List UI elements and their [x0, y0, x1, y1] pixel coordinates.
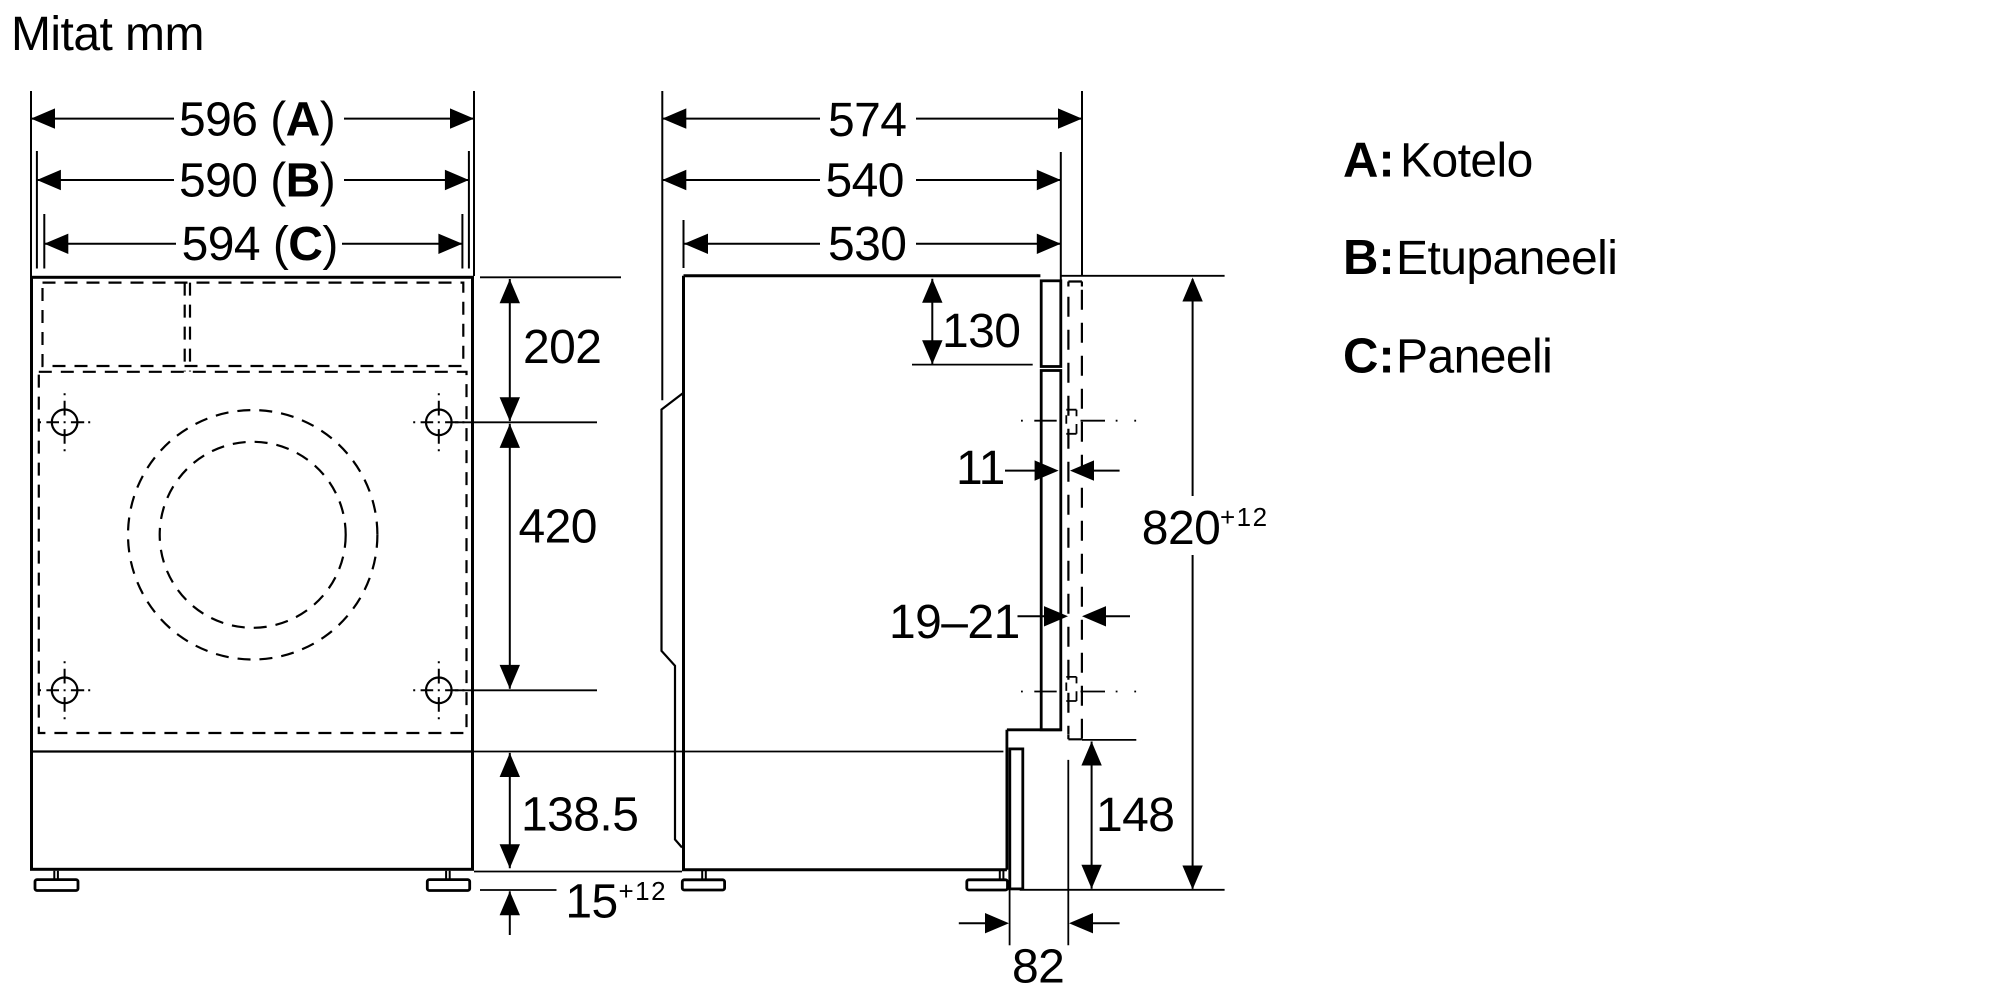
svg-text:574: 574 — [828, 94, 906, 147]
svg-text:594 (C): 594 (C) — [182, 218, 338, 271]
svg-text:B:: B: — [1343, 231, 1395, 285]
svg-text:+12: +12 — [1220, 502, 1269, 532]
svg-text:530: 530 — [828, 218, 906, 271]
svg-text:+12: +12 — [619, 876, 668, 906]
svg-text:138.5: 138.5 — [521, 789, 638, 842]
svg-text:A:: A: — [1343, 134, 1395, 188]
svg-text:820: 820 — [1142, 502, 1220, 555]
svg-text:148: 148 — [1096, 789, 1174, 842]
svg-text:Paneeli: Paneeli — [1396, 330, 1552, 383]
svg-text:15: 15 — [565, 876, 617, 929]
svg-text:596 (A): 596 (A) — [179, 94, 335, 147]
svg-text:Kotelo: Kotelo — [1400, 135, 1533, 188]
svg-text:11: 11 — [956, 442, 1005, 495]
svg-text:Mitat mm: Mitat mm — [11, 8, 204, 61]
svg-text:202: 202 — [523, 321, 601, 374]
svg-text:420: 420 — [519, 501, 597, 554]
svg-text:130: 130 — [942, 305, 1020, 358]
svg-text:590 (B): 590 (B) — [179, 155, 335, 208]
svg-text:82: 82 — [1012, 941, 1064, 994]
svg-text:Etupaneeli: Etupaneeli — [1396, 232, 1617, 285]
svg-text:C:: C: — [1343, 329, 1395, 383]
svg-text:19–21: 19–21 — [889, 596, 1020, 649]
svg-text:540: 540 — [826, 155, 904, 208]
